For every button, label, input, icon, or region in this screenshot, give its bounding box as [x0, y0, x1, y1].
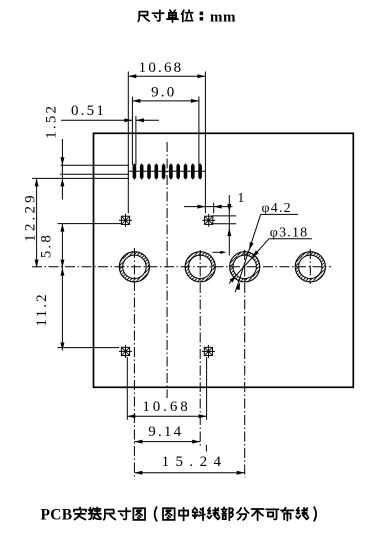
mounting hole H3 center line vertical [244, 250, 246, 478]
dimension 10.68 top: dimension line with arrows [128, 74, 205, 78]
PCB board outline [94, 133, 354, 387]
extension line: pad row bottom y=178.4 [32, 177, 129, 179]
connector pad 7 [176, 163, 180, 180]
mounting hole H2 (pad ring hatched) [185, 252, 215, 282]
dimension 1.52: dimension line with outside arrows [60, 139, 64, 200]
svg-text:1: 1 [237, 191, 244, 206]
dimension 9.0: dimension line with arrows [132, 99, 199, 103]
extension line below pad P4 [206, 357, 208, 420]
dimension 9.14: dimension line with arrows [134, 440, 200, 444]
mounting hole H2 center line vertical [199, 250, 201, 446]
connector pad row line [128, 170, 205, 172]
svg-text:φ4.2: φ4.2 [262, 201, 292, 216]
dimension 12.29: dimension line with arrows [35, 178, 39, 267]
svg-text:1.52: 1.52 [44, 104, 60, 139]
extension tick x=206.4 [205, 445, 207, 452]
connector pad 5 [162, 163, 166, 180]
horizontal center line through holes [32, 266, 331, 268]
extension line: connector left edge x=128.3 [127, 72, 129, 214]
svg-text:5.8: 5.8 [38, 233, 54, 258]
extension line: pad10 x=198.9 [198, 97, 200, 166]
extension line: pad row top y=165.2 [61, 164, 129, 166]
extension line: connector right edge x=205.4 [204, 72, 206, 214]
square pad P3 lower-left [119, 345, 132, 358]
square pad P4 lower-right [202, 345, 215, 358]
dimension 1: extension tick y=223.7 [211, 223, 236, 225]
dimension 15.24: dimension line with arrows [134, 471, 244, 475]
extension line: pad1 right x=135.9 [135, 116, 137, 165]
svg-text:9.0: 9.0 [151, 85, 176, 101]
dimension 1: horizontal dimension line with outside arrows [184, 205, 232, 209]
mounting hole H4 center line vertical [309, 249, 311, 284]
dimension 10.68 bottom: dimension line with arrows [127, 414, 206, 418]
extension line below pad P3 [126, 357, 128, 420]
vertical center line of connector [166, 142, 168, 398]
dimension 1: extension tick x=213.7 [213, 203, 215, 214]
mounting hole H4 (pad ring hatched) [295, 252, 325, 282]
extension line: pad1 left x=132.4 [131, 97, 133, 166]
connector pad 4 [155, 163, 159, 180]
square pad P2 upper-right [202, 214, 215, 227]
mounting hole H1 (pad ring hatched) [119, 252, 149, 282]
leader stub near hole H2 [213, 251, 227, 254]
dimension 1: vertical dimension line with arrows [227, 195, 231, 256]
title text: 尺寸单位：mm [138, 10, 236, 26]
dimension 1: extension tick y=215.9 [211, 215, 236, 217]
extension line: upper-left hole pad bottom y=223.6 [58, 223, 121, 225]
svg-text:10.68: 10.68 [142, 399, 190, 415]
connector pad 1 [133, 163, 137, 180]
connector pad 10 [198, 163, 202, 180]
svg-text:PCB: PCB [41, 507, 73, 524]
svg-text:15.24: 15.24 [162, 454, 228, 470]
extension line: pad row mid y=174.3 [60, 173, 129, 175]
svg-text:9.14: 9.14 [148, 424, 183, 440]
dimension 11.2: dimension line with arrows [60, 268, 64, 351]
extension line: lower-left hole pad top y=347.6 [58, 347, 120, 349]
caption text: PCB安装尺寸图（图中斜线部分不可布线） [41, 507, 317, 524]
dimension φ4.2: value label with underline leader [235, 201, 298, 292]
mounting hole H3 (pad ring hatched) [230, 252, 260, 282]
dimension 0.51: dimension line and outside arrows [61, 118, 159, 122]
connector pad 8 [184, 163, 188, 180]
mounting hole H1 center line vertical [133, 248, 135, 478]
svg-text:mm: mm [210, 10, 236, 26]
square pad P1 upper-left [119, 214, 132, 227]
svg-text:0.51: 0.51 [71, 103, 106, 119]
connector pad 6 [169, 163, 173, 180]
connector pad 2 [140, 163, 144, 180]
svg-text:11.2: 11.2 [34, 292, 50, 327]
connector pad 3 [147, 163, 151, 180]
dimension φ3.18: value label with underline leader [229, 226, 312, 284]
connector pad 9 [191, 163, 195, 180]
dimension 5.8: dimension line with arrows [60, 224, 64, 268]
svg-text:10.68: 10.68 [139, 60, 184, 76]
